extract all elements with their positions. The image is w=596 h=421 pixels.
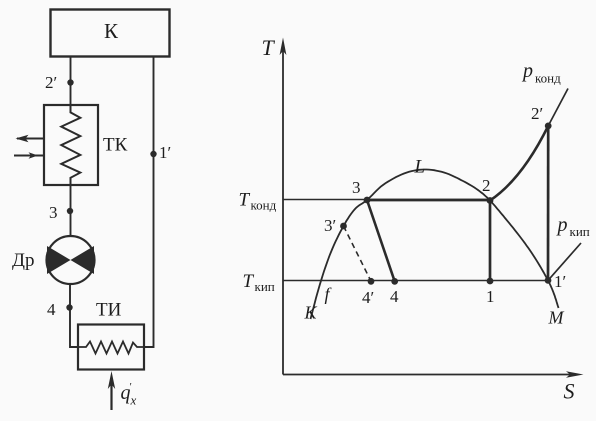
svg-text:S: S <box>564 379 575 404</box>
process line 2-1 <box>489 201 492 282</box>
svg-text:′: ′ <box>130 381 132 393</box>
wire right leg K to TI <box>144 57 154 348</box>
svg-text:L: L <box>414 157 426 178</box>
node 2' <box>545 123 552 130</box>
node 1' (diagram) <box>545 277 552 284</box>
heat exchanger TK box <box>44 105 98 185</box>
svg-text:4′: 4′ <box>362 288 374 307</box>
T axis <box>282 50 284 375</box>
svg-text:2′: 2′ <box>531 104 543 123</box>
node 3 <box>67 208 73 214</box>
process line 3-2 <box>367 199 490 202</box>
svg-text:К: К <box>304 303 318 323</box>
svg-text:ТК: ТК <box>103 135 128 156</box>
wire TK to Dr <box>70 185 72 236</box>
throttle Dr circle <box>47 236 95 284</box>
svg-text:конд: конд <box>535 71 561 86</box>
node 3' <box>340 223 347 230</box>
arrow in (lower left) <box>14 155 43 157</box>
node 1 <box>487 278 494 285</box>
svg-text:Др: Др <box>12 250 34 271</box>
process line 3-4 <box>367 200 395 281</box>
svg-text:3: 3 <box>49 203 58 222</box>
svg-text:f: f <box>325 284 333 304</box>
p_кип segment from 1' <box>548 243 581 280</box>
expansion dashed line 3'-4' <box>344 226 372 281</box>
svg-text:3: 3 <box>352 178 361 197</box>
evaporator TI box <box>78 325 144 370</box>
svg-text:p: p <box>521 60 533 82</box>
node 4 (diagram) <box>391 278 398 285</box>
svg-text:4: 4 <box>390 287 399 306</box>
saturation dome K-3'-3-L-2-1'-M <box>311 170 559 320</box>
p_конд extension above 2' <box>548 89 568 126</box>
arrow out (heat rejected, upper left) <box>17 138 43 140</box>
TK coil (vertical zigzag) <box>61 105 80 185</box>
svg-text:2′: 2′ <box>45 73 57 92</box>
wire K to TK (left leg) <box>70 57 72 106</box>
svg-text:К: К <box>104 19 119 43</box>
svg-text:4: 4 <box>47 300 56 319</box>
svg-text:1′: 1′ <box>554 272 566 291</box>
T_kip isotherm line <box>283 280 548 282</box>
svg-text:T: T <box>243 271 255 292</box>
svg-text:x: x <box>130 393 137 408</box>
node 2' <box>67 79 73 85</box>
process curve 2-2' (p_конд isobar) <box>490 126 548 201</box>
node 1' <box>150 151 156 157</box>
svg-text:T: T <box>239 190 251 211</box>
svg-text:p: p <box>556 214 568 236</box>
svg-text:1: 1 <box>486 287 495 306</box>
arrow q_x (heat in) <box>110 380 112 410</box>
svg-text:ТИ: ТИ <box>96 300 122 321</box>
svg-text:3′: 3′ <box>324 216 336 235</box>
TI coil (horizontal zigzag) <box>78 342 144 354</box>
svg-text:кип: кип <box>570 224 590 239</box>
S axis <box>283 374 575 376</box>
svg-text:T: T <box>262 35 276 60</box>
svg-text:2: 2 <box>482 176 491 195</box>
svg-text:кип: кип <box>255 279 275 294</box>
node 3 (diagram) <box>364 197 371 204</box>
compressor K box <box>51 10 170 57</box>
throttle bowtie <box>47 246 94 274</box>
svg-text:M: M <box>548 308 565 328</box>
svg-text:конд: конд <box>251 198 277 213</box>
T_cond isotherm line <box>283 199 490 201</box>
node 2 <box>487 197 494 204</box>
node 4 <box>66 304 72 310</box>
process line 1'-2' <box>547 126 550 281</box>
svg-text:1′: 1′ <box>159 143 171 162</box>
wire Dr to TI <box>70 284 78 347</box>
node 4' <box>368 278 375 285</box>
